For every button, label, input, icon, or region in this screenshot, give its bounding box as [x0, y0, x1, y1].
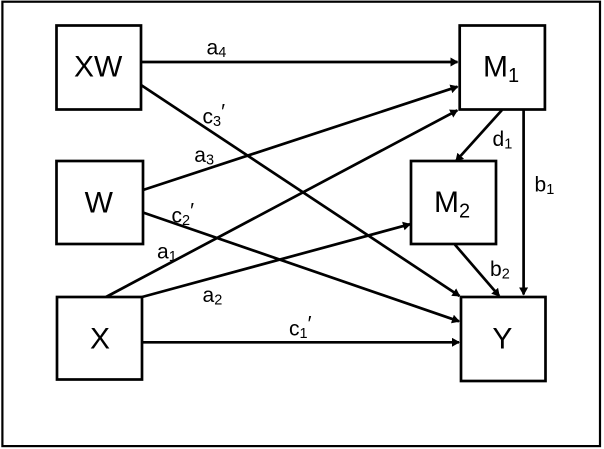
svg-text:XW: XW: [74, 51, 123, 84]
wire b1 (M1 to Y): [522, 110, 525, 295]
svg-text:c3′: c3′: [203, 101, 226, 131]
svg-text:X: X: [90, 323, 110, 356]
svg-text:a1: a1: [157, 241, 177, 266]
svg-text:c1′: c1′: [289, 313, 312, 343]
wire c1' (X to Y): [142, 341, 459, 344]
wire d1 (M1 to M2): [456, 110, 502, 161]
svg-text:a4: a4: [207, 37, 227, 62]
svg-text:b2: b2: [490, 258, 510, 283]
box M1: [460, 26, 545, 110]
svg-text:a3: a3: [194, 144, 214, 169]
box X: [57, 297, 142, 380]
svg-text:b1: b1: [535, 174, 555, 199]
svg-text:Y: Y: [492, 323, 512, 356]
wire a3 (W to M1): [143, 87, 458, 190]
box XW: [57, 26, 142, 110]
box W: [57, 161, 144, 244]
svg-text:a2: a2: [203, 284, 223, 309]
svg-text:d1: d1: [493, 128, 513, 153]
wire a1 (X to M1): [106, 110, 457, 297]
wire c2' (W to Y): [143, 213, 459, 322]
wire a2 (X to M2): [142, 224, 410, 297]
box Y: [461, 297, 546, 381]
wire a4 (XW to M1): [141, 61, 458, 64]
svg-text:c2′: c2′: [172, 200, 195, 230]
wire c3' (XW to Y): [141, 85, 460, 296]
svg-text:W: W: [85, 186, 114, 219]
box M2: [411, 161, 496, 244]
wire b2 (M2 to Y): [455, 245, 499, 297]
